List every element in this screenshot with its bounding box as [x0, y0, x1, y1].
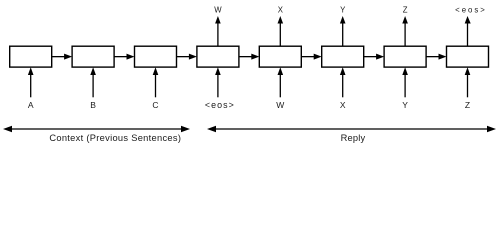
svg-text:W: W [214, 5, 222, 14]
RNN cell box 8 [447, 46, 489, 67]
wire: connector arrow box2 to box3 [114, 54, 134, 60]
RNN cell box 7 [384, 46, 426, 67]
wire: connector arrow box7 to box8 [426, 54, 446, 60]
svg-text:Y: Y [402, 100, 408, 110]
input label A [28, 100, 34, 110]
input label eos [205, 100, 235, 110]
reply span double arrow [207, 126, 496, 132]
svg-text:Context (Previous Sentences): Context (Previous Sentences) [49, 133, 181, 143]
output label X [278, 5, 284, 14]
input label W [276, 100, 284, 110]
RNN cell box 5 [259, 46, 301, 67]
svg-text:X: X [278, 5, 284, 14]
output label Z [403, 5, 408, 14]
output label eos [455, 5, 487, 14]
input arrow X into box6 [340, 67, 346, 97]
wire: connector arrow box6 to box7 [364, 54, 384, 60]
input label Z [465, 100, 470, 110]
RNN cell box 2 [72, 46, 114, 67]
input label C [152, 100, 158, 110]
input arrow A into box1 [28, 67, 34, 97]
RNN cell box 4 [197, 46, 239, 67]
context span double arrow [3, 126, 190, 132]
caption: Reply [341, 133, 366, 143]
wire: connector arrow box5 to box6 [301, 54, 321, 60]
wire: connector arrow box3 to box4 [177, 54, 197, 60]
output arrow Z from box7 [402, 16, 408, 46]
input arrow Y into box7 [402, 67, 408, 97]
svg-text:W: W [276, 100, 284, 110]
RNN cell box 3 [135, 46, 177, 67]
svg-text:<eos>: <eos> [455, 5, 487, 14]
svg-text:X: X [340, 100, 346, 110]
output arrow W from box4 [215, 16, 221, 46]
input label X [340, 100, 346, 110]
input arrow Z into box8 [465, 67, 471, 97]
input arrow W into box5 [278, 67, 284, 97]
caption: Context (Previous Sentences) [49, 133, 181, 143]
svg-text:B: B [90, 100, 96, 110]
output label W [214, 5, 222, 14]
input arrow C into box3 [153, 67, 159, 97]
svg-text:A: A [28, 100, 34, 110]
input label Y [402, 100, 408, 110]
svg-text:Z: Z [403, 5, 408, 14]
input arrow B into box2 [90, 67, 96, 97]
input arrow eos into box4 [215, 67, 221, 97]
svg-text:<eos>: <eos> [205, 100, 235, 110]
output arrow X from box5 [278, 16, 284, 46]
output label Y [340, 5, 346, 14]
output arrow eos from box8 [465, 16, 471, 46]
RNN cell box 1 [10, 46, 52, 67]
svg-text:C: C [152, 100, 158, 110]
output arrow Y from box6 [340, 16, 346, 46]
svg-text:Y: Y [340, 5, 346, 14]
RNN cell box 6 [322, 46, 364, 67]
wire: connector arrow box1 to box2 [52, 54, 72, 60]
input label B [90, 100, 96, 110]
svg-text:Reply: Reply [341, 133, 366, 143]
wire: connector arrow box4 to box5 [239, 54, 259, 60]
svg-text:Z: Z [465, 100, 470, 110]
